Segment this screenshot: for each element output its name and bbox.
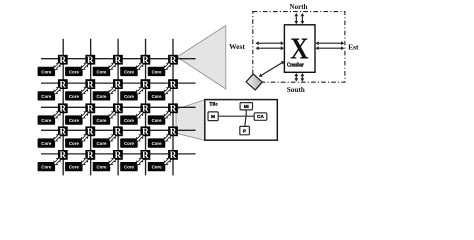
svg-text:Core: Core <box>69 165 80 170</box>
svg-text:P: P <box>243 128 246 133</box>
svg-text:Est: Est <box>348 43 359 52</box>
svg-text:MI: MI <box>244 104 249 109</box>
svg-text:South: South <box>287 86 305 94</box>
svg-text:Core: Core <box>96 118 107 123</box>
svg-text:Core: Core <box>69 141 80 146</box>
svg-text:M: M <box>211 114 215 119</box>
svg-text:Core: Core <box>41 165 52 170</box>
svg-text:Core: Core <box>96 165 107 170</box>
svg-text:Core: Core <box>69 94 80 99</box>
svg-text:Core: Core <box>152 141 163 146</box>
svg-text:North: North <box>290 3 308 11</box>
svg-text:Core: Core <box>96 141 107 146</box>
svg-text:Crossbar: Crossbar <box>287 63 304 69</box>
svg-text:Core: Core <box>124 141 135 146</box>
svg-text:Core: Core <box>124 165 135 170</box>
svg-text:West: West <box>229 42 245 51</box>
svg-text:Core: Core <box>152 69 163 74</box>
svg-text:Core: Core <box>152 118 163 123</box>
svg-text:Core: Core <box>41 118 52 123</box>
svg-text:Core: Core <box>41 69 52 74</box>
svg-text:Core: Core <box>124 118 135 123</box>
svg-text:Core: Core <box>69 118 80 123</box>
svg-text:X: X <box>290 30 309 65</box>
svg-text:Core: Core <box>41 94 52 99</box>
svg-text:Tile: Tile <box>209 103 218 108</box>
svg-text:Core: Core <box>96 94 107 99</box>
svg-text:Core: Core <box>152 165 163 170</box>
svg-text:Core: Core <box>41 141 52 146</box>
svg-text:Core: Core <box>96 69 107 74</box>
svg-text:Core: Core <box>152 94 163 99</box>
svg-text:Core: Core <box>69 69 80 74</box>
svg-text:Core: Core <box>124 94 135 99</box>
svg-text:CA: CA <box>257 114 264 119</box>
svg-text:Core: Core <box>124 69 135 74</box>
